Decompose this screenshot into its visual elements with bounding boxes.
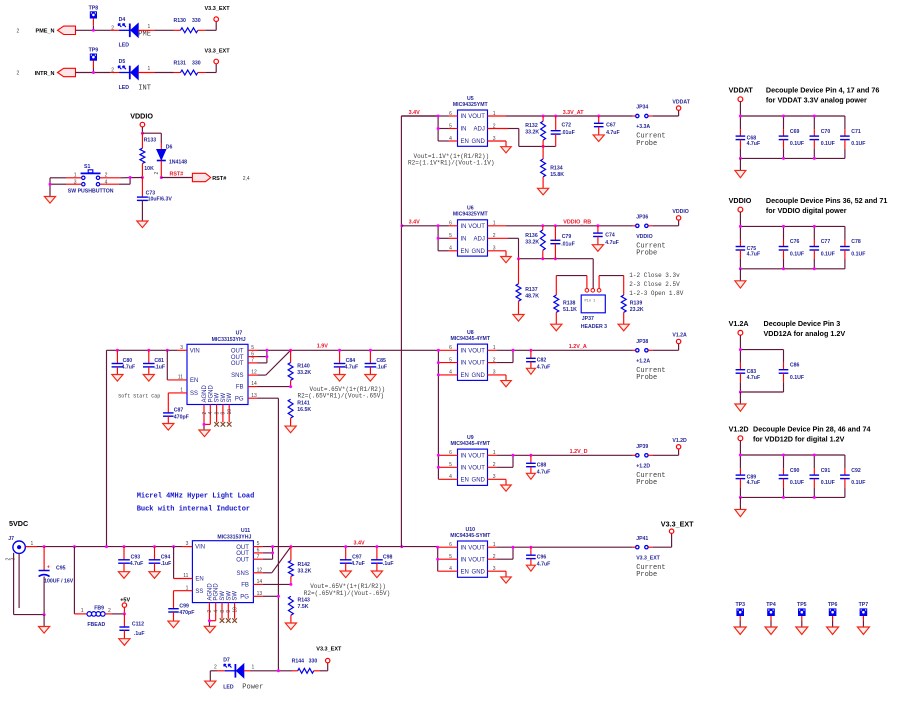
- svg-text:0.1UF: 0.1UF: [790, 480, 804, 486]
- junction: [554, 224, 557, 227]
- svg-text:LED: LED: [119, 85, 130, 91]
- note decouple: [766, 196, 887, 215]
- junction: [512, 454, 515, 457]
- pin labels D7: [214, 664, 254, 670]
- junction: [116, 349, 119, 352]
- junction: [277, 669, 280, 672]
- svg-text:VDDIO: VDDIO: [672, 209, 688, 215]
- resistor R138 51.1K: [554, 276, 577, 324]
- svg-text:470pF: 470pF: [174, 414, 189, 420]
- junction: [166, 349, 169, 352]
- svg-text:Soft Start Cap: Soft Start Cap: [118, 394, 160, 400]
- wire: [100, 178, 142, 185]
- resistor R143 7.5K: [288, 596, 310, 623]
- wire bus top: [740, 349, 783, 351]
- wire input: [401, 116, 457, 141]
- svg-text:VDDIO_RB: VDDIO_RB: [563, 220, 591, 226]
- svg-text:TP3: TP3: [735, 602, 745, 608]
- junction: [265, 349, 268, 352]
- resistor R142 33.2K: [288, 547, 311, 585]
- svg-text:SW: SW: [221, 392, 227, 402]
- svg-text:JP36: JP36: [636, 215, 648, 221]
- label +1.2D: [636, 463, 665, 487]
- svg-text:IN: IN: [461, 224, 467, 230]
- svg-text:1-2 Close 3.3v: 1-2 Close 3.3v: [629, 272, 680, 279]
- LED D4: [118, 17, 138, 49]
- junction: [400, 224, 403, 227]
- junction: [203, 423, 206, 426]
- svg-text:SNS: SNS: [237, 571, 249, 577]
- svg-text:4.7uF: 4.7uF: [345, 365, 359, 371]
- svg-text:C77: C77: [821, 239, 831, 245]
- junction: [43, 613, 46, 616]
- junction: [289, 385, 292, 388]
- pin 2 label: [111, 68, 114, 74]
- svg-text:Power: Power: [242, 684, 263, 692]
- svg-text:D4: D4: [119, 17, 126, 23]
- wire FB: [253, 583, 291, 585]
- net label INT: [138, 85, 151, 93]
- svg-text:R143: R143: [298, 598, 311, 604]
- junction: [141, 176, 144, 179]
- svg-text:for VDDIO digital power: for VDDIO digital power: [766, 206, 847, 215]
- capacitor C84 4.7uF: [334, 350, 358, 374]
- svg-text:15.8K: 15.8K: [550, 172, 564, 178]
- power terminal +5V: [120, 598, 130, 608]
- wire bus bottom: [740, 391, 783, 393]
- ground: [285, 426, 296, 433]
- ground: [526, 473, 535, 479]
- svg-text:SW PUSHBUTTON: SW PUSHBUTTON: [68, 188, 114, 194]
- capacitor C87 470pF: [163, 408, 189, 424]
- svg-text:OUT: OUT: [231, 349, 244, 355]
- jumper JP34 current probe: [636, 105, 649, 118]
- junction: [554, 115, 557, 118]
- wire input: [438, 547, 458, 571]
- ground: [340, 571, 351, 578]
- ground: [39, 627, 50, 634]
- svg-text:EN: EN: [190, 378, 198, 384]
- label +1.2A: [636, 358, 665, 382]
- svg-text:LED: LED: [223, 684, 234, 690]
- junction: [813, 496, 816, 499]
- ground: [501, 147, 512, 153]
- svg-text:C93: C93: [131, 554, 141, 560]
- svg-text:VOUT: VOUT: [468, 224, 485, 230]
- svg-text:1.2V_D: 1.2V_D: [570, 449, 588, 455]
- wire: [633, 110, 679, 116]
- junction: [153, 545, 156, 548]
- wire: [244, 670, 292, 672]
- wire: [43, 615, 45, 627]
- net label 3.4V: [409, 220, 420, 226]
- junction: [541, 224, 544, 227]
- svg-text:10: 10: [232, 607, 238, 613]
- ground: [796, 627, 808, 634]
- svg-text:+1.2D: +1.2D: [636, 463, 650, 469]
- capacitor C67 4.7uF: [594, 116, 620, 136]
- net label VDDIO_RB: [563, 220, 591, 226]
- wire: [209, 621, 215, 627]
- wire: [205, 64, 216, 73]
- capacitor C78 0.1UF: [840, 226, 865, 268]
- ground: [765, 627, 777, 634]
- svg-text:GND: GND: [472, 477, 486, 483]
- svg-text:V1.2A: V1.2A: [672, 333, 687, 339]
- svg-text:2: 2: [111, 25, 114, 31]
- svg-text:R2=(.65V*R1)/(Vout-.65V): R2=(.65V*R1)/(Vout-.65V): [304, 590, 390, 597]
- wire: [92, 61, 94, 73]
- jumper JP36 current probe: [636, 215, 649, 228]
- ground: [618, 324, 629, 331]
- svg-text:JP39: JP39: [636, 444, 648, 450]
- svg-text:8: 8: [220, 610, 226, 613]
- svg-text:R142: R142: [298, 562, 311, 568]
- svg-text:Buck with internal Inductor: Buck with internal Inductor: [137, 506, 250, 514]
- junction: [512, 349, 515, 352]
- svg-text:V3.3_EXT: V3.3_EXT: [316, 647, 342, 653]
- net label PME: [138, 31, 151, 39]
- wire: [204, 424, 210, 430]
- junction: [529, 546, 532, 549]
- junction: [813, 157, 816, 160]
- svg-text:INTR_N: INTR_N: [35, 71, 55, 77]
- svg-text:OUT: OUT: [236, 551, 249, 557]
- svg-text:C96: C96: [537, 554, 547, 560]
- svg-text:SW: SW: [220, 591, 226, 601]
- junction: [437, 349, 440, 352]
- wire bus top: [740, 454, 845, 456]
- svg-text:ADJ: ADJ: [474, 127, 485, 133]
- U11 pin SW no-connect: [220, 591, 226, 623]
- svg-text:SW: SW: [215, 392, 221, 402]
- junction: [369, 349, 372, 352]
- LED D5: [118, 59, 138, 91]
- power terminal V1.2A: [729, 319, 749, 335]
- svg-text:R136: R136: [525, 233, 538, 239]
- svg-text:U7: U7: [236, 331, 243, 337]
- svg-text:C99: C99: [179, 603, 189, 609]
- junction: [739, 391, 742, 394]
- svg-text:R130: R130: [174, 18, 187, 24]
- svg-text:0.1UF: 0.1UF: [821, 480, 835, 486]
- power terminal V3.3_EXT: [316, 647, 342, 663]
- wire: [801, 616, 803, 627]
- svg-text:23.2K: 23.2K: [630, 307, 644, 313]
- U10 pin names: [461, 545, 486, 575]
- junction: [400, 545, 403, 548]
- svg-text:J7: J7: [8, 536, 14, 542]
- svg-text:C97: C97: [352, 554, 362, 560]
- svg-text:R2=(1.1V*R1)/(Vout-1.1V): R2=(1.1V*R1)/(Vout-1.1V): [408, 159, 494, 166]
- ground: [365, 375, 376, 382]
- svg-text:MIC33153YHJ: MIC33153YHJ: [212, 337, 246, 343]
- pin 1 label: [148, 66, 151, 72]
- ground: [526, 368, 535, 374]
- svg-text:U5: U5: [467, 96, 474, 102]
- svg-text:EN: EN: [195, 577, 203, 583]
- junction: [739, 496, 742, 499]
- test point TP6: [828, 602, 838, 616]
- wire 5V rail: [25, 546, 192, 548]
- svg-text:V3.3_EXT: V3.3_EXT: [205, 49, 231, 55]
- junction: [782, 157, 785, 160]
- U6 pin numbers: [449, 221, 496, 252]
- wire: [320, 663, 328, 671]
- svg-text:2: 2: [17, 71, 20, 77]
- svg-text:GND: GND: [472, 139, 486, 145]
- svg-text:FB: FB: [236, 385, 244, 391]
- resistor R139 23.2K: [621, 276, 644, 324]
- wire 3.4V rail: [291, 546, 438, 548]
- svg-text:C87: C87: [174, 408, 184, 414]
- svg-text:4: 4: [208, 412, 214, 415]
- U7 pin PGND: [208, 384, 214, 424]
- junction: [265, 355, 268, 358]
- ground: [735, 170, 746, 177]
- svg-text:2: 2: [207, 610, 213, 613]
- test point TP5: [797, 602, 807, 616]
- svg-text:Probe: Probe: [636, 140, 657, 148]
- svg-text:2: 2: [17, 29, 20, 35]
- wire: [92, 18, 94, 30]
- junction: [49, 183, 52, 186]
- pin labels J7: [6, 541, 34, 561]
- capacitor C96 4.7uF: [526, 547, 550, 567]
- port INTR_N: [35, 68, 76, 77]
- net label 1.9V: [317, 343, 328, 349]
- svg-text:2: 2: [202, 412, 208, 415]
- resistor R140 33.2K: [288, 350, 311, 386]
- capacitor C93 4.7uF: [118, 547, 143, 572]
- svg-text:D7: D7: [223, 658, 230, 664]
- wire: [739, 497, 741, 509]
- U11 pin names: [195, 545, 249, 601]
- junction: [782, 267, 785, 270]
- junction: [123, 545, 126, 548]
- junction: [739, 157, 742, 160]
- junction: [739, 348, 742, 351]
- resistor R131 330: [174, 60, 206, 75]
- wire EN: [174, 547, 193, 579]
- junction: [123, 612, 126, 615]
- svg-text:MIC33153YHJ: MIC33153YHJ: [217, 534, 251, 540]
- svg-text:SW: SW: [233, 591, 239, 601]
- svg-text:Micrel 4MHz Hyper Light Load: Micrel 4MHz Hyper Light Load: [137, 493, 255, 501]
- svg-text:TP9: TP9: [89, 48, 99, 54]
- svg-text:1N4148: 1N4148: [169, 159, 187, 165]
- svg-text:330: 330: [192, 60, 201, 66]
- svg-text:C78: C78: [851, 239, 861, 245]
- wire: [142, 133, 161, 149]
- svg-text:4.7uF: 4.7uF: [351, 561, 365, 567]
- junction: [782, 496, 785, 499]
- wire SNS: [253, 547, 291, 573]
- ground: [163, 424, 174, 431]
- note decouple: [766, 86, 879, 105]
- capacitor C76 0.1UF: [779, 226, 804, 268]
- U11 pin numbers: [183, 541, 262, 597]
- wire FB: [248, 386, 291, 388]
- ground: [44, 197, 55, 204]
- svg-text:IN: IN: [461, 348, 467, 354]
- svg-text:Probe: Probe: [636, 479, 657, 487]
- svg-text:51.1K: 51.1K: [563, 307, 577, 313]
- U5 pin numbers: [449, 111, 496, 142]
- wire VIN rail: [107, 350, 188, 547]
- junction: [338, 349, 341, 352]
- svg-text:SNS: SNS: [231, 373, 243, 379]
- capacitor C112 .1uF: [119, 614, 144, 639]
- svg-text:+1.2A: +1.2A: [636, 358, 650, 364]
- formula U5: [408, 153, 494, 166]
- junction: [437, 466, 440, 469]
- svg-text:V1.2D: V1.2D: [672, 438, 687, 444]
- svg-text:C80: C80: [123, 358, 133, 364]
- capacitor C88 4.7uF: [526, 455, 550, 475]
- svg-text:IN: IN: [461, 236, 467, 242]
- ground: [334, 375, 345, 382]
- svg-text:0.1UF: 0.1UF: [851, 252, 865, 258]
- svg-text:10uF/6.3V: 10uF/6.3V: [148, 197, 173, 203]
- svg-text:2: 2: [108, 608, 111, 614]
- wire: [739, 335, 741, 349]
- svg-text:VDDIO: VDDIO: [729, 196, 752, 205]
- svg-text:4.7uF: 4.7uF: [122, 365, 136, 371]
- svg-text:EN: EN: [461, 373, 469, 379]
- svg-text:.1uF: .1uF: [161, 561, 172, 567]
- svg-text:9: 9: [226, 610, 232, 613]
- wire: [556, 276, 587, 289]
- svg-text:VOUT: VOUT: [468, 348, 485, 354]
- svg-text:C82: C82: [537, 358, 547, 364]
- U7 pin AGND: [202, 384, 208, 424]
- ground: [119, 639, 130, 646]
- svg-text:2: 2: [154, 172, 160, 175]
- power terminal VDDAT: [729, 86, 754, 102]
- wire: [832, 616, 834, 627]
- note micrel: [137, 493, 255, 514]
- junction: [739, 454, 742, 457]
- junction: [739, 225, 742, 228]
- net label 3.3V_AT: [563, 110, 585, 116]
- test point TP9: [89, 48, 99, 61]
- capacitor C81 .1uF: [143, 350, 165, 374]
- svg-text:R131: R131: [174, 60, 187, 66]
- note jumper settings: [629, 272, 683, 297]
- regulator U7 MIC33153YHJ: [187, 331, 248, 405]
- regulator U9 MIC94345-4YMT: [451, 435, 491, 486]
- ground: [857, 627, 869, 634]
- svg-text:VOUT: VOUT: [468, 453, 485, 459]
- U9 pin names: [461, 453, 486, 483]
- svg-text:C72: C72: [562, 122, 572, 128]
- junction: [541, 257, 544, 260]
- wire: [209, 671, 211, 681]
- svg-text:C94: C94: [161, 554, 171, 560]
- svg-text:+3.3A: +3.3A: [636, 124, 650, 130]
- svg-text:4.7uF: 4.7uF: [537, 365, 551, 371]
- off-page reference 2: [17, 29, 20, 35]
- svg-text:C88: C88: [537, 463, 547, 469]
- svg-text:MIC94325YMT: MIC94325YMT: [453, 102, 489, 108]
- junction: [436, 546, 439, 549]
- junction: [782, 454, 785, 457]
- wire: [633, 534, 672, 548]
- wire: [739, 212, 741, 226]
- svg-text:GND: GND: [472, 569, 486, 575]
- svg-text:GND: GND: [472, 249, 486, 255]
- svg-text:C95: C95: [56, 565, 66, 571]
- junction: [529, 454, 532, 457]
- svg-text:ADJ: ADJ: [474, 236, 485, 242]
- wire OUT: [253, 547, 291, 560]
- pin 2 label: [154, 172, 160, 175]
- svg-text:VDD12A for analog 1.2V: VDD12A for analog 1.2V: [764, 329, 846, 338]
- svg-text:VOUT: VOUT: [468, 545, 485, 551]
- svg-text:Decouple Device Pins 36, 52 an: Decouple Device Pins 36, 52 and 71: [766, 196, 887, 205]
- capacitor C91 0.1UF: [810, 455, 835, 497]
- ground: [592, 245, 603, 252]
- svg-text:4: 4: [214, 610, 220, 613]
- svg-text:U9: U9: [467, 435, 474, 441]
- svg-text:R132: R132: [525, 123, 538, 129]
- ground: [112, 375, 123, 382]
- svg-text:4.7uF: 4.7uF: [130, 561, 144, 567]
- U7 pin SW no-connect: [221, 392, 227, 426]
- svg-text:.01uF: .01uF: [561, 242, 575, 248]
- U11 pin AGND: [207, 583, 213, 621]
- capacitor C90 0.1UF: [779, 455, 804, 497]
- svg-text:IN: IN: [461, 127, 467, 133]
- svg-text:VDDAT: VDDAT: [729, 86, 754, 95]
- jumper JP39 current probe: [636, 444, 649, 457]
- svg-text:PGND: PGND: [208, 384, 214, 402]
- junction: [437, 361, 440, 364]
- junction: [172, 545, 175, 548]
- svg-text:R144: R144: [292, 659, 305, 665]
- wire: [123, 607, 125, 614]
- svg-text:VIN: VIN: [190, 348, 200, 354]
- ground: [204, 626, 215, 633]
- ground: [734, 627, 746, 634]
- power terminal V3.3_EXT: [661, 520, 694, 534]
- ground: [735, 281, 746, 288]
- test point TP8: [89, 6, 99, 19]
- header JP37 HEADER 3: [581, 289, 607, 331]
- wire: [599, 276, 624, 289]
- label VDDIO: [636, 234, 665, 258]
- junction: [542, 145, 545, 148]
- power terminal V1.2D: [672, 438, 687, 449]
- ground: [149, 572, 160, 579]
- wire bus bottom: [740, 157, 845, 159]
- svg-text:SW: SW: [227, 392, 233, 402]
- net label 3.4V: [354, 541, 365, 547]
- junction: [437, 373, 440, 376]
- svg-text:Decouple Device Pin 3: Decouple Device Pin 3: [764, 319, 841, 328]
- power terminal VDDAT: [672, 99, 690, 110]
- junction: [739, 115, 742, 118]
- svg-text:4.7uF: 4.7uF: [747, 141, 761, 147]
- svg-text:OUT: OUT: [236, 545, 249, 551]
- ground: [593, 135, 604, 142]
- svg-text:JP37: JP37: [582, 316, 594, 322]
- svg-text:10K: 10K: [144, 166, 154, 172]
- wire OUT: [248, 350, 291, 363]
- resistor R133 10K: [140, 133, 156, 177]
- capacitor C80 4.7uF: [112, 350, 136, 374]
